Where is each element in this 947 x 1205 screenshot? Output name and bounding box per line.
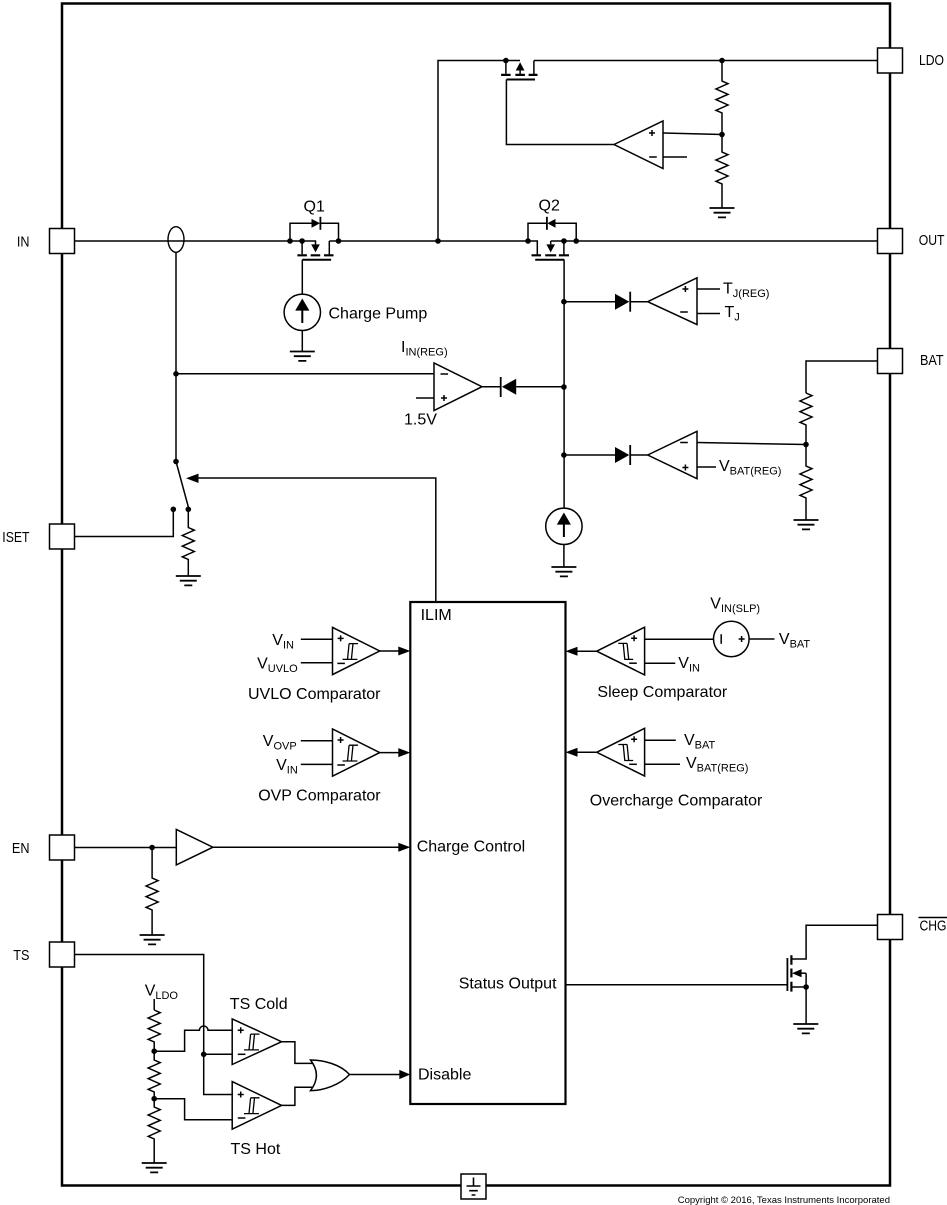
svg-text:VIN(SLP): VIN(SLP) [710,596,760,616]
ground symbol inside VSS pin [467,1178,481,1196]
node Q1 body diode right dot [336,238,342,244]
node EN pulldown tap dot [149,845,155,851]
diode Q1 body diode [290,217,339,241]
svg-text:ISET: ISET [2,530,29,546]
svg-text:UVLO Comparator: UVLO Comparator [248,686,381,703]
resistor battery divider upper [800,393,812,445]
wire OR output to disable [350,1074,401,1076]
wire sleep plus input to VIN(SLP) source [645,638,714,640]
node battery divider mid dot [803,442,809,448]
wire node1 to TS Cold plus with hop over TS line [154,1026,232,1051]
wire Q1 gate drop to charge pump [301,260,303,295]
wire IIN sense branch from ellipse down to switch [175,252,177,461]
node gate node IIN tap dot [561,384,567,390]
op-amp TJ regulation amplifier [648,278,697,325]
svg-text:IN: IN [17,235,30,251]
svg-text:VUVLO: VUVLO [257,656,298,676]
wire TJ tap to diode [564,301,616,303]
wire LDO top rail left segment and drop to IN rail [438,61,520,242]
node gate node TJ tap dot [561,299,567,305]
wire VBAT tap to diode [564,454,616,456]
svg-text:BAT: BAT [920,353,944,369]
svg-text:Charge Control: Charge Control [417,839,526,856]
svg-text:TS Hot: TS Hot [231,1141,281,1158]
wire IIN amp plus 1.5V stub [416,397,434,399]
op-amp VBAT regulation amplifier [648,431,697,478]
node TS stack node1 dot [151,1048,157,1054]
wire VLDO lead to resistor stack [153,999,155,1010]
svg-text:ILIM: ILIM [421,607,452,624]
node LDO divider mid dot [719,132,725,138]
switch ISET selector arm [176,462,188,507]
wire ILIM control from box top to switch [199,478,436,602]
current source charge pump [284,294,320,330]
svg-text:VIN: VIN [272,632,294,652]
ground battery divider [794,520,819,529]
svg-text:Status Output: Status Output [459,976,557,993]
svg-text:VOVP: VOVP [263,733,297,753]
resistor TS stack lower [148,1099,160,1163]
ground LDO divider [710,208,735,217]
wire TS tap to TS Cold minus input [204,1053,233,1055]
svg-text:TJ: TJ [725,304,740,324]
wire TJ(REG) input stub [697,288,720,290]
svg-text:VBAT: VBAT [779,631,811,651]
wire IIN amp output [482,386,501,388]
svg-text:TS: TS [13,948,29,964]
svg-text:EN: EN [12,841,30,857]
block ILIM charge control box [410,602,565,1104]
resistor TS stack middle [148,1051,160,1099]
ground ISET resistor [176,576,201,585]
transistor LDO pass PMOS [501,58,537,80]
pin CHG terminal [878,915,903,940]
svg-text:VIN: VIN [276,757,298,777]
pin IN terminal [50,229,75,254]
svg-text:VIN: VIN [678,655,700,675]
svg-text:Overcharge Comparator: Overcharge Comparator [590,793,763,810]
pin label CHG overline bar [919,917,947,919]
node Q2 body diode right dot [573,238,579,244]
wire VBAT amp minus to battery divider node [697,443,806,445]
resistor LDO divider upper [716,61,728,135]
wire VIN(SLP) source to VBAT label [749,638,774,640]
current sense ellipse on IN rail [168,227,184,253]
op-amp LDO error amplifier [614,121,663,169]
node gate node VBAT tap dot [561,452,567,458]
comparator UVLO [333,627,380,674]
arrow sleep comparator output arrowhead [566,647,578,656]
transistor Q2 [532,241,570,260]
diode VBAT control diode [615,445,648,465]
wire OUT rail from Q2 to OUT pin [551,240,878,242]
wire UVLO VUVLO input [301,662,333,664]
pin ISET terminal [50,524,75,549]
svg-text:VBAT(REG): VBAT(REG) [686,755,748,775]
transistor CHG open-drain NMOS [787,925,877,1024]
wire UVLO VIN input [301,638,333,640]
wire rail between Q1 and Q2 [329,241,537,255]
svg-text:Charge Pump: Charge Pump [329,306,428,323]
wire TS pin line down to TS Hot plus [75,955,233,1095]
buffer EN input buffer [176,830,213,865]
svg-text:1.5V: 1.5V [404,412,437,429]
node IIN amp tap dot [173,371,179,377]
resistor battery divider lower [800,445,812,520]
wire BAT pin to divider [806,361,878,393]
wire charge pump to ground [301,331,303,352]
op-amp IIN(REG) amplifier [434,363,482,411]
svg-text:Sleep Comparator: Sleep Comparator [597,684,728,701]
comparator TS Hot [232,1082,281,1130]
ground charge pump [290,352,315,361]
arrow charge control arrowhead [398,843,410,852]
wire LDO amp plus input to divider node [663,133,722,135]
transistor Q1 [297,241,333,260]
svg-text:VBAT: VBAT [684,732,716,752]
pin TS terminal [50,942,75,967]
wire IN rail left segment from pin through Q1 [75,241,316,244]
diode IIN control diode [501,377,564,397]
comparator TS Cold [232,1019,281,1065]
wire node2 to TS Hot minus [154,1099,232,1120]
resistor ISET set resistor [182,509,194,576]
wire sleep comparator output [577,650,597,652]
wire LDO rail right segment to LDO pin [534,60,878,62]
node Q2 body diode left dot [525,238,531,244]
ground EN pulldown [140,935,165,944]
node switch top dot [173,459,179,465]
arrow disable arrowhead [399,1070,410,1079]
pin BAT terminal [878,349,903,374]
svg-text:LDO: LDO [919,53,944,69]
svg-text:IIN(REG): IIN(REG) [401,339,448,359]
comparator overcharge [597,728,645,776]
pin EN terminal [50,835,75,860]
svg-text:TS Cold: TS Cold [230,996,288,1013]
node Q1 source stub dot [299,238,305,244]
resistor TS stack upper [148,1010,160,1051]
wire ISET pin to switch left contact [75,509,174,536]
arrow overcharge comparator output arrowhead [566,748,578,757]
wire LDO amp minus reference stub [663,156,687,158]
wire overcharge comparator output [577,751,597,753]
svg-text:VLDO: VLDO [145,983,179,1003]
current source Q2 gate pulldown [546,508,582,544]
arrow OVP output arrowhead [398,748,410,757]
node Q1 body diode left dot [287,238,293,244]
node LDO rail junction dot at IN rail [435,238,441,244]
voltage source VIN(SLP) offset [714,621,750,657]
wire sleep minus VIN input stub [645,662,676,664]
diode TJ control diode [615,292,648,312]
gate OR gate for disable [311,1060,350,1091]
wire UVLO output [380,650,399,652]
wire TJ input stub [697,313,720,315]
resistor EN pulldown [146,848,158,936]
wire OVP output [380,752,399,754]
svg-text:Disable: Disable [418,1067,471,1084]
node switch right contact dot [186,507,192,513]
wire OVP VOVP input [301,740,333,742]
pin OUT terminal [878,229,903,254]
comparator OVP [333,729,380,776]
svg-text:OVP Comparator: OVP Comparator [258,788,381,805]
wire overcharge VBAT(REG) input stub [645,763,680,765]
wire overcharge VBAT input stub [645,739,676,741]
pin LDO terminal [878,48,903,73]
wire VBAT(REG) input stub [697,466,716,468]
ground gate pulldown [551,567,576,576]
wire TS Hot output to OR gate [282,1087,317,1105]
wire Q2 gate node vertical [563,260,565,509]
node LDO divider top dot [719,58,725,64]
svg-text:TJ(REG): TJ(REG) [723,281,769,301]
wire TS Cold output to OR gate [282,1042,317,1064]
wire EN pin to buffer [75,847,177,849]
wire pulldown to ground [563,545,565,568]
wire LDO gate to error amp [506,80,614,145]
wire status output to CHG transistor gate [566,984,788,986]
node TS cold minus tap dot [201,1052,207,1058]
svg-text:Q1: Q1 [304,199,325,216]
wire EN buffer output to charge control [213,846,399,848]
comparator sleep [597,627,645,675]
pin VSS ground terminal [461,1174,486,1199]
node TS stack node2 dot [151,1096,157,1102]
arrow UVLO output arrowhead [398,647,410,656]
arrow ILIM control arrowhead at switch [186,474,199,483]
svg-text:Q2: Q2 [539,198,560,215]
ground TS stack [142,1163,167,1172]
resistor LDO divider lower [716,135,728,209]
node switch left contact dot [171,507,177,513]
ground CHG transistor source [793,1024,818,1033]
diode Q2 body diode [528,217,576,241]
svg-text:Copyright © 2016, Texas Instru: Copyright © 2016, Texas Instruments Inco… [678,1195,890,1205]
svg-text:VBAT(REG): VBAT(REG) [719,458,781,478]
wire IIN sense to amp minus input [176,373,434,375]
svg-text:CHG: CHG [920,918,947,934]
node Q2 drain stub dot [561,238,567,244]
wire OVP VIN input [301,763,333,765]
svg-text:OUT: OUT [919,233,945,249]
